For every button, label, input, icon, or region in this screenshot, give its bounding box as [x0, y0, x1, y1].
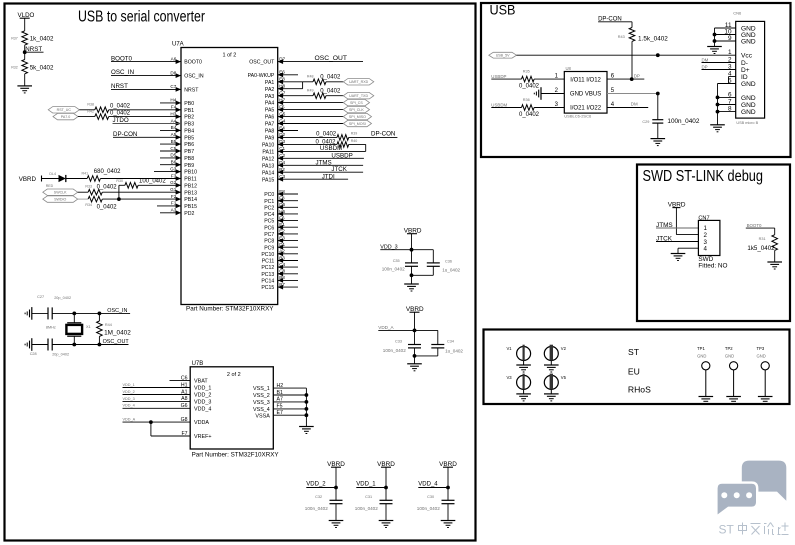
wire VDDA to VREF+: [150, 422, 152, 436]
svg-text:PC1: PC1: [264, 199, 274, 205]
svg-text:GND: GND: [741, 102, 756, 109]
svg-text:1M_0402: 1M_0402: [104, 330, 131, 337]
U7B pin A8 VDD_3: [123, 396, 212, 405]
svg-text:UART_RXD: UART_RXD: [349, 80, 369, 84]
svg-text:C34: C34: [447, 339, 454, 343]
U7A pin B7 PC15: [261, 282, 298, 291]
svg-text:VDD_2: VDD_2: [306, 482, 326, 488]
svg-text:100n_0402: 100n_0402: [383, 348, 406, 353]
svg-text:1k5_0402: 1k5_0402: [747, 245, 775, 252]
junction VDDA / VREF+: [149, 420, 153, 424]
wire CN6 pin2 D- + label DM: [702, 57, 736, 62]
net label NRST + wire to U7A: [111, 83, 181, 90]
U7A pin C8 PC13: [261, 269, 298, 278]
net label DP-CON + wire to PB5: [113, 131, 181, 138]
capacitor C31 100n_0402: [355, 488, 393, 521]
op-amp U7B body (STM32F10XRXY 2 of 2): [190, 367, 273, 449]
node RST_UC (hex net flag): [48, 107, 79, 113]
ground below R32: [17, 85, 32, 87]
svg-text:V3: V3: [506, 375, 512, 380]
resistor R35 0_0402: [519, 70, 564, 90]
svg-text:SWD ST-LINK debug: SWD ST-LINK debug: [643, 168, 764, 185]
U7A pin D6 PC2: [264, 202, 298, 211]
svg-text:GND: GND: [757, 354, 766, 359]
svg-text:OSC_IN: OSC_IN: [111, 69, 134, 76]
net label JTMS + wire to CN7 pin1: [656, 222, 698, 229]
svg-text:Part Number: STM32F10XRXY: Part Number: STM32F10XRXY: [192, 452, 280, 459]
wire CN6 pin3 D+ + label DP: [702, 64, 736, 69]
svg-text:0_0402: 0_0402: [110, 104, 131, 110]
svg-text:BOOT0: BOOT0: [747, 223, 762, 228]
net label VDD_4 + wire: [418, 482, 448, 488]
svg-text:C31: C31: [365, 495, 372, 499]
svg-text:EU: EU: [628, 367, 640, 377]
wire CN6 pin5 GND: [718, 83, 736, 85]
test point TP2 + ground: [725, 346, 741, 404]
CN6 pin 11 GND: [725, 22, 756, 33]
variant symbol V2 + ground: [544, 345, 567, 372]
ground below CN7 pin4: [671, 253, 686, 255]
svg-text:VBRD: VBRD: [19, 176, 37, 183]
net label JTDO + wire to PB3: [113, 117, 182, 124]
node UART_RXD (hex net flag): [343, 79, 374, 85]
ground below R31: [767, 261, 782, 263]
svg-text:VDD_1: VDD_1: [356, 482, 376, 488]
svg-text:PC9: PC9: [264, 245, 274, 251]
svg-text:PC0: PC0: [264, 192, 274, 198]
CN6 pin 6 GND: [728, 91, 756, 102]
power flag VBRD (SWD): [668, 202, 686, 235]
svg-text:1 of 2: 1 of 2: [223, 53, 237, 59]
svg-text:PC5: PC5: [264, 219, 274, 225]
U7A pin C5 PB7: [160, 146, 194, 155]
U7A pin H8 PA2: [265, 84, 286, 93]
svg-text:PC10: PC10: [261, 252, 274, 258]
resistor R38 0_0402 on PB1: [79, 103, 181, 113]
junction VDD_A: [413, 329, 417, 333]
junction SWDIO / R30: [117, 197, 121, 201]
svg-text:GND: GND: [741, 81, 756, 88]
svg-text:680_0402: 680_0402: [94, 169, 121, 175]
watermark text ST + CJK strokes: [719, 523, 789, 537]
junction below C35: [410, 273, 414, 277]
ground below C32: [329, 520, 344, 522]
U7A pin G2 PB12: [170, 180, 197, 189]
svg-text:C32: C32: [315, 495, 322, 499]
svg-text:1: 1: [728, 49, 732, 56]
U7A pin F4 PB1: [171, 105, 194, 114]
U7B pin G8 VDDA: [123, 417, 210, 426]
svg-text:DP-CON: DP-CON: [371, 131, 395, 138]
junction CN6 gnd bus: [716, 96, 720, 100]
capacitor C27 20p_0402: [37, 295, 71, 319]
resistor R31 1k5_0402: [747, 235, 777, 262]
svg-text:PA8: PA8: [265, 129, 275, 135]
node USB_5V (hex net flag): [489, 52, 517, 58]
U7A pin D8 OSC_IN: [170, 70, 203, 79]
junction R43 / DP: [630, 77, 634, 81]
resistor R32 5k_0402: [11, 60, 54, 74]
svg-text:VDDA: VDDA: [194, 420, 209, 426]
svg-text:100n_0402: 100n_0402: [417, 506, 440, 511]
net label JTCK + wire PA14: [278, 166, 363, 173]
svg-text:0_0402: 0_0402: [110, 111, 131, 117]
capacitor C36 1u_0402: [412, 250, 461, 276]
CN6 pin 10 GND: [724, 28, 756, 39]
svg-text:USBLC6-2SC6: USBLC6-2SC6: [564, 114, 592, 119]
svg-text:100n_0402: 100n_0402: [355, 506, 378, 511]
wire CN7 pin4 to ground: [678, 247, 698, 249]
wire VBRD to CN7 pin2: [676, 234, 698, 236]
svg-text:PB9: PB9: [184, 163, 194, 169]
junction R44 bottom: [98, 343, 102, 347]
svg-text:ST: ST: [719, 523, 735, 537]
svg-text:R41: R41: [82, 171, 89, 175]
wire OSC_OUT bottom: [52, 344, 128, 346]
wire to ground (VDD_3 caps): [411, 275, 413, 284]
svg-text:2 of 2: 2 of 2: [227, 372, 241, 378]
svg-text:PB3: PB3: [184, 122, 194, 128]
net label DP-CON (USB sheet) + wire: [598, 17, 632, 28]
junction VBUS / 5V drop: [656, 92, 660, 96]
svg-text:VREF+: VREF+: [194, 434, 212, 440]
svg-text:R43: R43: [618, 35, 625, 39]
svg-text:0_0402: 0_0402: [316, 131, 337, 137]
power flag VBRD (VDD_3): [404, 228, 422, 250]
svg-text:GND: GND: [741, 109, 756, 116]
svg-text:20p_0402: 20p_0402: [52, 352, 69, 356]
watermark logo speech bubbles: [716, 461, 786, 517]
capacitor C29 100n_0402: [642, 94, 699, 139]
svg-text:R35: R35: [523, 70, 530, 74]
U7A pin F6 PC5: [264, 215, 298, 224]
svg-text:VSSA: VSSA: [255, 413, 270, 419]
U7A pin B4 PB4: [160, 125, 194, 134]
variant symbol V3 + ground: [506, 374, 530, 401]
svg-text:0_0402: 0_0402: [320, 88, 341, 94]
CN6 pin 9 GND: [728, 35, 756, 46]
resistor R36 0_0402: [519, 98, 564, 118]
svg-text:D+: D+: [741, 67, 750, 74]
svg-text:PC13: PC13: [261, 272, 274, 278]
svg-text:PB11: PB11: [184, 177, 196, 183]
svg-text:X1: X1: [86, 325, 91, 329]
svg-text:C36: C36: [445, 260, 452, 264]
U7B pin A1 VDD_2: [123, 389, 212, 398]
svg-text:DM: DM: [702, 57, 709, 62]
wire junction from SWDIO line up to R30: [118, 185, 120, 199]
CN6 pin 3 D+: [728, 63, 750, 74]
IC U8 USBLC6-2SC6 body: [564, 72, 607, 114]
svg-text:OSC_OUT: OSC_OUT: [103, 339, 130, 345]
U7A pin G5 PA6: [265, 111, 286, 120]
svg-text:PA15: PA15: [262, 177, 274, 183]
svg-text:R48: R48: [307, 75, 314, 79]
resistor R30 100_0402 on PB12: [116, 179, 181, 189]
svg-text:100n_0402: 100n_0402: [305, 506, 328, 511]
svg-text:TP3: TP3: [757, 346, 765, 351]
svg-text:100n_0402: 100n_0402: [382, 266, 405, 271]
resistor R43 1.5k_0402: [618, 28, 669, 80]
svg-text:8MHz: 8MHz: [46, 326, 56, 330]
svg-text:BOOT0: BOOT0: [184, 60, 202, 66]
svg-text:PA6: PA6: [265, 115, 275, 121]
svg-text:RST_UC: RST_UC: [57, 108, 72, 112]
svg-text:PB5: PB5: [184, 135, 194, 141]
svg-text:PC6: PC6: [264, 225, 274, 231]
svg-text:USB: USB: [490, 3, 516, 18]
svg-text:R39: R39: [351, 131, 358, 135]
svg-text:PA2: PA2: [265, 87, 275, 93]
junction VSS bus: [305, 400, 309, 404]
wire PA1 stub: [278, 81, 303, 83]
svg-text:VDD_2: VDD_2: [123, 390, 135, 394]
svg-text:100_0402: 100_0402: [139, 179, 166, 185]
U7A pin G7 PA3: [265, 91, 286, 100]
svg-text:PB14: PB14: [184, 197, 197, 203]
svg-text:VDD_4: VDD_4: [194, 406, 211, 412]
svg-text:GND: GND: [697, 354, 706, 359]
variant symbol V1 + ground: [506, 345, 530, 372]
U7A pin B6 PB9: [160, 160, 194, 169]
svg-text:USB micro B: USB micro B: [736, 121, 758, 125]
svg-text:C33: C33: [395, 339, 402, 343]
wire CN6 pin4 ID jog: [729, 76, 736, 78]
svg-text:VSS_1: VSS_1: [253, 386, 270, 392]
connector CN6 USB micro B body: [736, 21, 765, 118]
svg-text:PD2: PD2: [184, 211, 194, 217]
svg-text:VDD_3: VDD_3: [194, 400, 211, 406]
svg-text:UART_TXD: UART_TXD: [349, 94, 368, 98]
resistor R41 680_0402 on PB11: [66, 169, 181, 181]
resistor R37 1k_0402: [11, 31, 54, 45]
svg-text:OSC_IN: OSC_IN: [107, 308, 127, 314]
svg-text:PC12: PC12: [261, 265, 274, 271]
svg-text:VDD_3: VDD_3: [123, 397, 135, 401]
wire U8 pin5 VBUS: [607, 93, 658, 95]
svg-text:R40: R40: [351, 139, 358, 143]
U7A pin G3 PB10: [154, 166, 197, 175]
junction VDD_4: [446, 486, 450, 490]
svg-text:PC15: PC15: [261, 285, 274, 291]
junction crystal bottom: [72, 343, 76, 347]
U7A pin E3 PC8: [264, 235, 298, 244]
svg-text:Fitted: NO: Fitted: NO: [698, 263, 727, 270]
CN6 pin 4 ID: [728, 70, 748, 81]
U7A pin D2 PA9: [265, 132, 286, 141]
U7A pin H4 PB0: [160, 98, 194, 107]
junction R44 top: [98, 312, 102, 316]
svg-text:PB8: PB8: [184, 156, 194, 162]
variant symbol V5 + ground: [544, 374, 567, 401]
svg-text:VDD_A: VDD_A: [378, 325, 394, 330]
node SPI_CLK (hex net flag) + wire: [278, 109, 344, 111]
ground below CN6 9/10/11: [707, 46, 722, 48]
svg-text:VDD_1: VDD_1: [194, 386, 211, 392]
svg-text:0_0402: 0_0402: [320, 74, 341, 80]
svg-text:C28: C28: [30, 352, 37, 356]
resistor R42 0_0402 on PB2: [78, 110, 181, 120]
node NRST stub + label: [25, 46, 44, 53]
svg-text:TP1: TP1: [697, 346, 705, 351]
wire U8 pin6 to DP: [607, 78, 644, 80]
capacitor C33 100n_0402: [383, 330, 421, 356]
junction CN6 pin10: [713, 33, 717, 37]
svg-text:0_0402: 0_0402: [519, 84, 540, 90]
U7A pin F5 PA5: [265, 104, 285, 113]
junction below C33: [413, 354, 417, 358]
net label JTMS + wire PA13: [278, 159, 363, 166]
svg-text:Vcc: Vcc: [741, 53, 753, 60]
power flag VLDO: [18, 12, 35, 31]
svg-text:ID: ID: [741, 74, 748, 81]
U7A pin E6 PA0-WKUP: [248, 70, 298, 79]
power flag VBRD (VDD_4): [439, 461, 457, 488]
svg-text:CN6: CN6: [733, 11, 742, 16]
svg-text:NRST: NRST: [184, 88, 199, 94]
wire gnd to C27: [32, 312, 48, 314]
U7A pin H3 PB2: [170, 111, 194, 120]
U7A pin E8 PC0: [264, 189, 298, 198]
capacitor C32 100n_0402: [305, 488, 343, 521]
svg-text:20p_0402: 20p_0402: [54, 296, 71, 300]
U7A pin D3 PA10: [262, 139, 286, 148]
svg-text:PA7: PA7: [265, 122, 275, 128]
svg-text:ST: ST: [628, 347, 640, 357]
svg-text:V5: V5: [561, 375, 567, 380]
svg-text:R37: R37: [11, 36, 18, 40]
svg-text:SWDIO: SWDIO: [54, 198, 66, 202]
junction VDD_3: [410, 248, 414, 252]
junction CN6 gnd bus: [716, 103, 720, 107]
sheet border: USB to serial converter: [5, 4, 476, 541]
U7A pin D7 OSC_OUT: [249, 56, 285, 65]
svg-text:0_0402: 0_0402: [97, 185, 118, 191]
wire PA2 + jog up to PA1 row: [278, 88, 303, 90]
wire USB 5V rail: [517, 54, 736, 56]
ground below C31: [379, 520, 394, 522]
svg-text:SWCLK: SWCLK: [54, 191, 67, 195]
net label VDD_2 + wire: [306, 482, 336, 488]
sheet border: SWD ST-LINK debug: [637, 165, 790, 322]
svg-text:PC2: PC2: [264, 205, 274, 211]
U7A pin B5 PB6: [160, 139, 194, 148]
junction 5V / C29 branch: [656, 53, 660, 57]
U7A pin E2 PC7: [264, 229, 298, 238]
U7A pin F3 PB11: [171, 173, 197, 182]
U7A pin F2 PB14: [171, 194, 197, 203]
net label JTDI + wire PA15: [278, 174, 348, 181]
svg-text:SPI_CLK: SPI_CLK: [349, 108, 364, 112]
svg-text:DM: DM: [631, 102, 638, 107]
resistor R44 1M_0402: [97, 313, 132, 344]
net label OSC_IN + wire to U7A: [111, 69, 181, 76]
svg-text:VDD_4: VDD_4: [418, 482, 438, 488]
svg-text:PB6: PB6: [184, 142, 194, 148]
U7A pin A3 PD2: [160, 208, 195, 217]
node SWCLK (hex net flag): [43, 189, 78, 195]
capacitor C30 100n_0402: [417, 488, 455, 521]
svg-text:SPI_MISO: SPI_MISO: [349, 115, 366, 119]
wire VSS bus vertical: [305, 388, 307, 426]
svg-text:C29: C29: [642, 120, 649, 124]
svg-text:V1: V1: [506, 346, 512, 351]
U7B pin E7 VSSA: [255, 410, 306, 419]
svg-text:U8: U8: [566, 66, 572, 71]
svg-text:R42: R42: [87, 110, 94, 114]
U7B pin B1 VSS_2: [253, 390, 306, 399]
svg-text:I/O21 I/O22: I/O21 I/O22: [570, 106, 602, 112]
op-amp U7A body (STM32F10XRXY 1 of 2): [181, 48, 278, 305]
U7A pin C1 PA11: [262, 146, 285, 155]
node PA7.0 (hex net flag): [53, 113, 78, 119]
svg-text:R32: R32: [11, 65, 18, 69]
svg-text:R49: R49: [307, 89, 314, 93]
wire CN6 pins 6/7/8 bus: [718, 96, 736, 98]
wire OSC_IN top: [52, 312, 130, 314]
U7A pin E8 PA1: [265, 77, 285, 86]
U7A pin C3 PA15: [262, 174, 286, 183]
svg-text:PA1: PA1: [265, 80, 275, 86]
svg-text:PB12: PB12: [184, 183, 197, 189]
svg-text:USBDM: USBDM: [491, 102, 507, 107]
svg-text:PB1: PB1: [184, 108, 194, 114]
svg-text:VSS_3: VSS_3: [253, 400, 270, 406]
U7B pin C6 VBAT: [170, 375, 209, 384]
node SPI_CS (hex net flag) + wire: [278, 102, 344, 104]
junction NRST: [23, 50, 27, 54]
wire U8 pin4 to DM: [607, 107, 648, 109]
CN6 pin 5 GND: [728, 77, 756, 88]
svg-text:GND: GND: [725, 354, 734, 359]
U7A pin A5 PB5: [171, 132, 195, 141]
svg-text:USB to serial converter: USB to serial converter: [78, 9, 205, 26]
U7B pin F5 VSS_4: [253, 404, 306, 413]
svg-text:1k_0402: 1k_0402: [30, 35, 54, 42]
power flag VBRD (VDD_1): [377, 461, 395, 488]
svg-text:PA10: PA10: [262, 143, 274, 149]
U7A pin E4 PA8: [265, 125, 298, 134]
svg-text:GND VBUS: GND VBUS: [570, 92, 601, 98]
svg-text:1u_0402: 1u_0402: [442, 268, 460, 273]
svg-text:R33: R33: [85, 185, 92, 189]
net label USBDM + wire PA11: [278, 145, 366, 152]
svg-text:OSC_IN: OSC_IN: [184, 74, 204, 80]
net label VDD_A + wire: [378, 325, 438, 330]
U7A pin A2 PC10: [261, 249, 298, 258]
svg-text:PC14: PC14: [261, 279, 274, 285]
svg-text:JTDO: JTDO: [113, 117, 129, 124]
svg-text:C35: C35: [393, 259, 400, 263]
svg-text:VDD_A: VDD_A: [123, 418, 136, 422]
crystal X1 8MHz: [46, 313, 91, 344]
svg-text:DP: DP: [702, 64, 708, 69]
svg-text:5k_0402: 5k_0402: [30, 64, 54, 71]
svg-text:C30: C30: [427, 495, 434, 499]
U7B pin H1 VDD_1: [123, 382, 212, 391]
net label VDD_3 + wire: [380, 245, 433, 251]
test point TP3 + ground: [757, 346, 773, 404]
net label BOOT0 + wire to U7A: [111, 55, 181, 62]
svg-text:RED: RED: [46, 184, 54, 188]
resistor R39 0_0402 on PA9 to DP-CON: [278, 131, 398, 140]
svg-text:VDD_2: VDD_2: [194, 393, 211, 399]
junction VSS bus: [305, 393, 309, 397]
svg-text:PA9: PA9: [265, 136, 275, 142]
svg-text:D-: D-: [741, 60, 748, 67]
ground left of C27: [31, 307, 33, 320]
U7A pin B3 PC11: [262, 255, 298, 264]
